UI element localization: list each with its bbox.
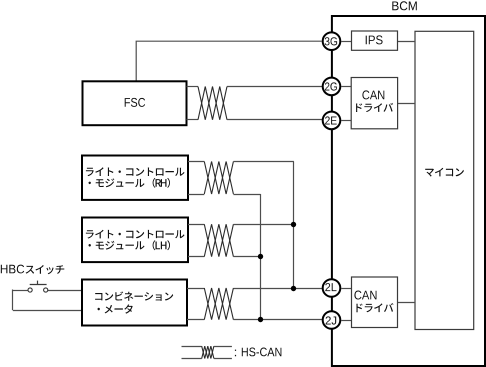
BCM box (332, 16, 485, 366)
CAN driver 2 label ドライバ (356, 303, 393, 312)
wire IPS to microcomputer (398, 41, 416, 43)
CAN-H bus vertical wire (293, 162, 295, 289)
twisted pair symbol RH (204, 162, 233, 195)
label コンビネーション (95, 292, 173, 301)
HBC switch actuator tick (37, 281, 39, 284)
junction LH CAN-L (258, 254, 263, 259)
junction meter CAN-L (258, 317, 263, 322)
wire 2G to CAN driver 1 (341, 86, 351, 88)
wire meter CAN-H to 2L (233, 288, 322, 290)
CAN driver 1 label ドライバ (356, 103, 393, 112)
wire 2L to CAN driver 2 (341, 288, 351, 290)
FSC label (125, 98, 145, 107)
wire CAN driver 1 to microcomputer (398, 103, 415, 105)
terminal 2L (323, 279, 341, 297)
light control module RH box (82, 156, 188, 200)
wire LH CAN-L to bus (233, 256, 260, 258)
junction LH CAN-H (291, 222, 296, 227)
wire FSC CAN-H to 2G (227, 86, 323, 88)
HBC switch label スイッチ (26, 265, 65, 274)
wire meter CAN-L to 2J (233, 319, 322, 321)
CAN driver 1 label CAN (362, 90, 384, 99)
マイコン label (425, 168, 464, 177)
label ライト・コントロール (LH line1) (86, 230, 185, 239)
terminal 3G (323, 32, 341, 50)
terminal 2G (323, 78, 341, 96)
combination meter box (82, 280, 187, 326)
wire FSC top to 3G (136, 41, 322, 81)
wire CAN driver 2 to microcomputer (398, 302, 416, 304)
legend twisted pair symbol (202, 346, 214, 358)
wire meter CAN-H stub (187, 288, 204, 290)
HBC switch contact right (44, 288, 48, 292)
wire 2J to CAN driver 2 (341, 320, 351, 322)
CAN driver 1 box (351, 78, 397, 129)
HBC switch label HBC (1, 265, 24, 274)
label ・モジュール（RH） (RH line2) (89, 178, 171, 188)
terminal 2E (323, 112, 341, 130)
legend twisted pair bottom wire (182, 358, 202, 360)
terminal 2J (323, 311, 341, 329)
junction meter CAN-H (291, 286, 296, 291)
IPS label (366, 35, 383, 44)
wire switch left vertical (12, 290, 14, 311)
light control module LH box (82, 218, 188, 263)
HBC switch contact left (28, 288, 32, 292)
legend text HS-CAN (235, 350, 236, 357)
FSC box (83, 81, 187, 125)
label ・メータ (98, 304, 133, 313)
CAN driver 2 label CAN (354, 291, 376, 300)
wire LH CAN-H stub (188, 224, 204, 226)
wire switch right to meter (48, 290, 82, 292)
HBC switch blade (30, 284, 47, 286)
legend twisted pair bottom wire right (214, 358, 232, 360)
wire switch left (13, 290, 28, 292)
wire FSC CAN-H stub (187, 86, 199, 88)
wire 3G to IPS (341, 41, 351, 43)
wire 2E to CAN driver 1 (341, 120, 351, 122)
label ライト・コントロール (RH line1) (86, 167, 185, 176)
wire FSC CAN-L stub (187, 119, 199, 121)
microcomputer box マイコン (415, 31, 474, 329)
wire FSC CAN-L to 2E (227, 119, 323, 121)
BCM label (392, 1, 417, 10)
label ・モジュール（LH） (LH line2) (89, 240, 171, 250)
wire RH CAN-H stub (188, 161, 204, 163)
twisted pair symbol meter (204, 288, 233, 320)
legend twisted pair top wire right (214, 346, 232, 348)
CAN driver 2 box (352, 277, 398, 328)
twisted pair symbol FSC (198, 87, 227, 120)
wire LH CAN-H to bus (233, 224, 294, 226)
wire RH CAN-L stub (188, 194, 204, 196)
CAN-L bus vertical wire (260, 194, 262, 320)
wire RH CAN-H horizontal (233, 161, 294, 163)
wire switch bottom to meter (13, 310, 82, 312)
wire RH CAN-L horizontal (233, 194, 260, 196)
legend twisted pair top wire (182, 346, 202, 348)
wire meter CAN-L stub (187, 319, 204, 321)
wire LH CAN-L stub (188, 256, 204, 258)
twisted pair symbol LH (204, 224, 233, 256)
IPS box U1 (352, 31, 398, 50)
